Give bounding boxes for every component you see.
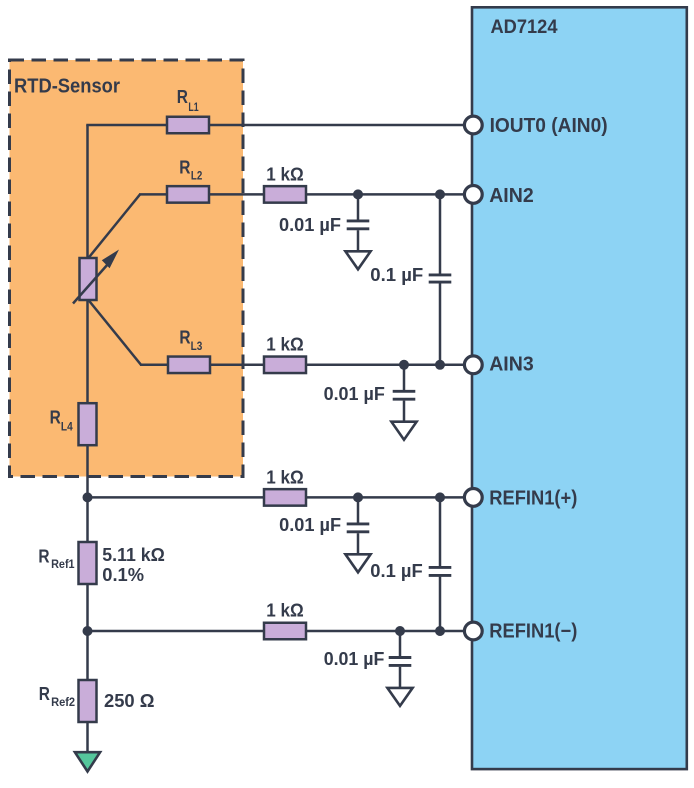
resistor RRef2 (39, 680, 155, 722)
node AIN3-cap junction (399, 360, 409, 370)
svg-text:R: R (177, 86, 188, 107)
RTD element (variable resistor) (73, 250, 119, 304)
svg-text:0.1%: 0.1% (102, 564, 144, 585)
AD7124 IC block (472, 7, 687, 769)
svg-text:L1: L1 (188, 100, 198, 114)
node trunk-REFIN1+ junction (83, 492, 93, 502)
capacitor 0.01uF AIN3 (324, 365, 416, 422)
svg-text:Ref2: Ref2 (51, 695, 75, 709)
resistor 1k REFIN1+ (264, 467, 306, 506)
RTD-Sensor dashed orange box (10, 60, 244, 477)
resistor RL4 (50, 403, 97, 445)
resistor RRef1 (38, 542, 164, 585)
capacitor 0.1uF REFIN (370, 560, 451, 581)
capacitor 0.1uF AIN2-AIN3 (370, 264, 451, 285)
wire AIN3 row (140, 364, 465, 367)
svg-text:R: R (39, 683, 50, 704)
svg-text:R: R (38, 545, 49, 566)
svg-text:AD7124: AD7124 (491, 16, 558, 38)
node REFIN1--0.1uF junction (435, 626, 445, 636)
svg-text:L2: L2 (191, 169, 203, 183)
node AIN2-0.1uF junction (435, 189, 445, 199)
ground REFIN1- cap (387, 688, 412, 706)
wire IOUT0 row (86, 124, 464, 127)
capacitor 0.01uF REFIN1+ (279, 497, 369, 554)
wire diagonal to AIN3 row (88, 300, 141, 365)
wire left trunk upper (86, 125, 89, 259)
wire REFIN1(-) row (86, 630, 464, 633)
resistor 1k AIN2 (264, 164, 306, 203)
pin AIN2 (464, 185, 533, 207)
svg-text:250 Ω: 250 Ω (104, 690, 155, 711)
svg-text:5.11 kΩ: 5.11 kΩ (102, 544, 165, 565)
svg-text:1 kΩ: 1 kΩ (266, 334, 304, 355)
node AIN3-0.1uF junction (435, 360, 445, 370)
wire 0.1uF branch REFIN (439, 497, 442, 631)
capacitor 0.01uF AIN2 (279, 194, 369, 251)
resistor RL2 (167, 157, 209, 203)
node REFIN1--cap junction (395, 626, 405, 636)
svg-text:0.1 µF: 0.1 µF (370, 264, 423, 285)
node REFIN1+-0.1uF junction (435, 492, 445, 502)
pin REFIN1(-) (464, 620, 577, 642)
wire 0.1uF branch AIN2-AIN3 (439, 194, 442, 364)
node REFIN1+-cap junction (353, 492, 363, 502)
svg-text:R: R (179, 157, 190, 178)
svg-text:L4: L4 (61, 419, 73, 433)
wire REFIN1(+) row (86, 496, 464, 499)
ground AIN2 cap (345, 251, 370, 269)
svg-text:1 kΩ: 1 kΩ (266, 164, 304, 185)
svg-text:0.01 µF: 0.01 µF (279, 214, 341, 235)
svg-text:0.01 µF: 0.01 µF (324, 383, 385, 404)
pin AIN3 (464, 353, 533, 375)
svg-text:REFIN1(+): REFIN1(+) (489, 487, 577, 509)
svg-text:AIN3: AIN3 (489, 353, 534, 375)
svg-text:L3: L3 (191, 339, 203, 353)
capacitor 0.01uF REFIN1- (324, 631, 412, 688)
svg-text:RTD-Sensor: RTD-Sensor (14, 76, 120, 98)
svg-text:R: R (179, 327, 190, 348)
svg-text:0.1 µF: 0.1 µF (370, 560, 422, 581)
resistor RL3 (168, 327, 210, 374)
wire AIN2 row (139, 193, 465, 196)
resistor 1k AIN3 (264, 334, 306, 373)
svg-text:REFIN1(−): REFIN1(−) (489, 620, 577, 642)
svg-text:IOUT0 (AIN0): IOUT0 (AIN0) (490, 115, 608, 137)
node AIN2-cap junction (353, 189, 363, 199)
ground AIN3 cap (391, 422, 416, 440)
svg-text:Ref1: Ref1 (51, 557, 75, 571)
svg-text:AIN2: AIN2 (489, 185, 534, 207)
svg-text:R: R (50, 407, 61, 428)
wire left trunk lower (86, 299, 89, 753)
resistor 1k REFIN1- (264, 600, 306, 640)
pin IOUT0 (AIN0) (464, 115, 607, 137)
ground analog (green) (75, 752, 100, 771)
svg-text:0.01 µF: 0.01 µF (324, 648, 385, 669)
resistor RL1 (167, 86, 209, 133)
node trunk-REFIN1- junction (83, 626, 93, 636)
pin REFIN1(+) (464, 487, 577, 509)
ground REFIN1+ cap (345, 554, 370, 572)
svg-text:0.01 µF: 0.01 µF (279, 514, 341, 535)
wire diagonal to AIN2 row (88, 194, 140, 258)
svg-text:1 kΩ: 1 kΩ (266, 467, 304, 488)
svg-text:1 kΩ: 1 kΩ (266, 600, 304, 621)
